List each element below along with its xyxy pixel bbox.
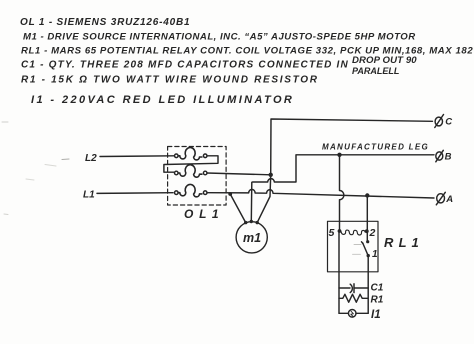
OL1 pole 2 heater bbox=[175, 165, 208, 177]
overload relay OL1 dashed enclosure bbox=[168, 147, 227, 206]
relay RL1 enclosure bbox=[328, 221, 379, 271]
wire pole1 to pole2 series jumper bbox=[164, 156, 218, 172]
svg-text:OL 1 - SIEMENS 3RUZ126-40B1: OL 1 - SIEMENS 3RUZ126-40B1 bbox=[20, 17, 190, 28]
svg-text:R L 1: R L 1 bbox=[384, 235, 420, 250]
wire phase A rail with crossover hops bbox=[207, 189, 434, 198]
wire phase A down to relay terminal 2 bbox=[366, 196, 368, 232]
svg-text:R1: R1 bbox=[371, 295, 384, 306]
junction relay terminal 2 on phase A bbox=[365, 193, 369, 197]
wire motor lead 2 manufactured leg bbox=[251, 155, 434, 222]
junction motor lead 1 on phase A bbox=[228, 192, 232, 196]
lamp I1 bbox=[339, 309, 381, 321]
svg-text:L1: L1 bbox=[83, 190, 95, 201]
svg-text:C1: C1 bbox=[371, 283, 384, 294]
junction node phase C / pole2 / motor lead bbox=[269, 173, 273, 177]
svg-text:C: C bbox=[445, 117, 452, 128]
svg-text:O L 1: O L 1 bbox=[184, 207, 220, 221]
wire phase B down to relay terminal 5 with hop over phase A bbox=[340, 155, 344, 231]
svg-text:I1: I1 bbox=[371, 309, 381, 321]
wire right rail terminal 1 down bbox=[367, 256, 369, 314]
svg-text:MANUFACTURED LEG: MANUFACTURED LEG bbox=[322, 143, 429, 152]
wire pole2 output to node with phase C bbox=[207, 173, 271, 175]
svg-text:R1 - 15K Ω TWO WATT WIRE WOUN: R1 - 15K Ω TWO WATT WIRE WOUND RESISTOR bbox=[21, 75, 319, 86]
OL1 pole 1 heater bbox=[175, 148, 208, 160]
motor M1 bbox=[236, 222, 267, 253]
wire L2 input bbox=[100, 155, 174, 158]
OL1 pole 3 heater bbox=[175, 184, 208, 196]
svg-text:B: B bbox=[445, 152, 452, 163]
svg-text:1: 1 bbox=[372, 249, 378, 260]
svg-text:I1 - 220VAC RED LED ILLUMINAT: I1 - 220VAC RED LED ILLUMINATOR bbox=[31, 94, 294, 106]
svg-text:5: 5 bbox=[329, 227, 335, 239]
svg-text:M1 - DRIVE SOURCE INTERNATION: M1 - DRIVE SOURCE INTERNATIONAL, INC. “A… bbox=[23, 32, 416, 43]
svg-text:L2: L2 bbox=[85, 153, 97, 164]
relay contact RL1 terminals 2-1 bbox=[353, 233, 379, 260]
junction phase B to relay coil bbox=[337, 153, 341, 157]
svg-text:2: 2 bbox=[369, 227, 376, 239]
svg-text:A: A bbox=[445, 194, 453, 205]
svg-text:PARALELL: PARALELL bbox=[352, 66, 399, 76]
wire L1 input bbox=[97, 192, 173, 195]
wire motor lead 3 to phase C node bbox=[257, 175, 271, 223]
wire motor lead 1 to phase A bbox=[230, 194, 246, 223]
stray pencil mark bbox=[62, 158, 69, 161]
wire left rail terminal 5 down bbox=[338, 231, 340, 313]
resistor R1 bbox=[339, 294, 384, 305]
node phi A label bbox=[436, 192, 453, 205]
wire phase C rail and drop bbox=[271, 119, 433, 175]
svg-text:DROP OUT 90: DROP OUT 90 bbox=[352, 55, 417, 66]
relay coil RL1 terminals 5-2 bbox=[329, 227, 376, 239]
svg-text:m1: m1 bbox=[243, 231, 261, 245]
node phi B label bbox=[436, 150, 452, 162]
node phi C label bbox=[435, 115, 453, 128]
capacitor C1 bbox=[339, 283, 384, 294]
svg-text:C1 - QTY. THREE 208 MFD CAPAC: C1 - QTY. THREE 208 MFD CAPACITORS CONNE… bbox=[21, 60, 349, 71]
